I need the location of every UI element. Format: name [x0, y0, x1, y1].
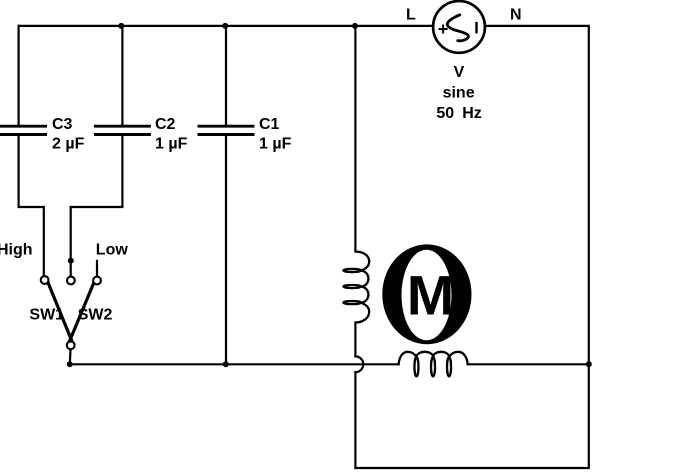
wire switch common to bottom bus	[69, 350, 72, 365]
svg-text:M: M	[407, 264, 455, 326]
svg-text:1 µF: 1 µF	[155, 136, 188, 153]
junction dot motor branch / top bus	[352, 23, 358, 29]
switch SW1 blade	[48, 282, 72, 341]
junction dot C1 / top bus	[222, 23, 228, 29]
switch SW2 throw terminal (Low)	[93, 277, 101, 285]
switch SW1 throw terminal (High)	[41, 276, 49, 284]
wire left branch down to C3	[18, 26, 20, 126]
inductor: motor start winding (vertical coil)	[343, 252, 369, 323]
wire C1 bottom to bottom bus	[225, 135, 227, 365]
svg-text:L: L	[406, 7, 416, 24]
wire N side: source right terminal down to bottom junction	[485, 26, 589, 364]
junction dot on middle throw wire	[68, 258, 74, 264]
junction dot C2 / top bus	[118, 23, 124, 29]
wire C1 branch from top bus	[225, 26, 227, 126]
switch SW2 blade	[69, 283, 93, 342]
wire hop over bottom bus	[355, 356, 363, 372]
wire top bus from left corner to source L terminal	[19, 25, 434, 27]
wire motor branch from top bus down to start winding	[354, 26, 356, 252]
switch middle terminal	[67, 277, 75, 285]
capacitor C3	[0, 126, 46, 134]
svg-text:SW2: SW2	[78, 307, 113, 324]
svg-text:C3: C3	[52, 116, 73, 133]
capacitor C1	[199, 126, 253, 134]
voltage source V1 plus sign	[439, 25, 448, 34]
svg-text:Low: Low	[96, 241, 129, 258]
svg-text:High: High	[0, 241, 33, 258]
wire bottom return rail to N junction	[355, 364, 588, 468]
svg-text:SW1: SW1	[29, 307, 64, 324]
svg-text:C2: C2	[155, 116, 176, 133]
wire Low stub	[96, 261, 98, 276]
capacitor C2	[95, 126, 149, 134]
svg-text:2 µF: 2 µF	[52, 136, 85, 153]
voltage source V1 minus bar	[475, 22, 477, 34]
svg-text:C1: C1	[259, 116, 280, 133]
wire start winding to hop	[354, 323, 356, 357]
svg-text:N: N	[510, 7, 522, 24]
svg-text:1 µF: 1 µF	[259, 136, 292, 153]
switch common terminal	[67, 341, 75, 349]
junction dot bottom bus / return rail / N	[586, 361, 592, 367]
junction dot C1 / bottom bus	[223, 361, 229, 367]
wire bottom bus right segment (run winding to N junction)	[468, 363, 589, 365]
wire hop to bottom return rail	[354, 372, 356, 468]
wire bottom bus left segment (switch common to run winding)	[70, 363, 399, 365]
wire C3 bottom to SW1 High throw	[19, 135, 44, 276]
svg-text:sine: sine	[443, 85, 475, 102]
wire C2 bottom to switch middle terminal	[71, 135, 123, 277]
svg-text:V: V	[454, 64, 465, 81]
motor M1 body (thick ellipse ring)	[382, 244, 471, 344]
wire C2 branch from top bus	[121, 26, 123, 126]
inductor: motor run winding (horizontal coil)	[399, 352, 468, 377]
voltage source V1 sine squiggle	[447, 15, 468, 41]
voltage source V1 body	[433, 1, 485, 53]
junction dot switch common / bottom bus	[67, 361, 73, 367]
